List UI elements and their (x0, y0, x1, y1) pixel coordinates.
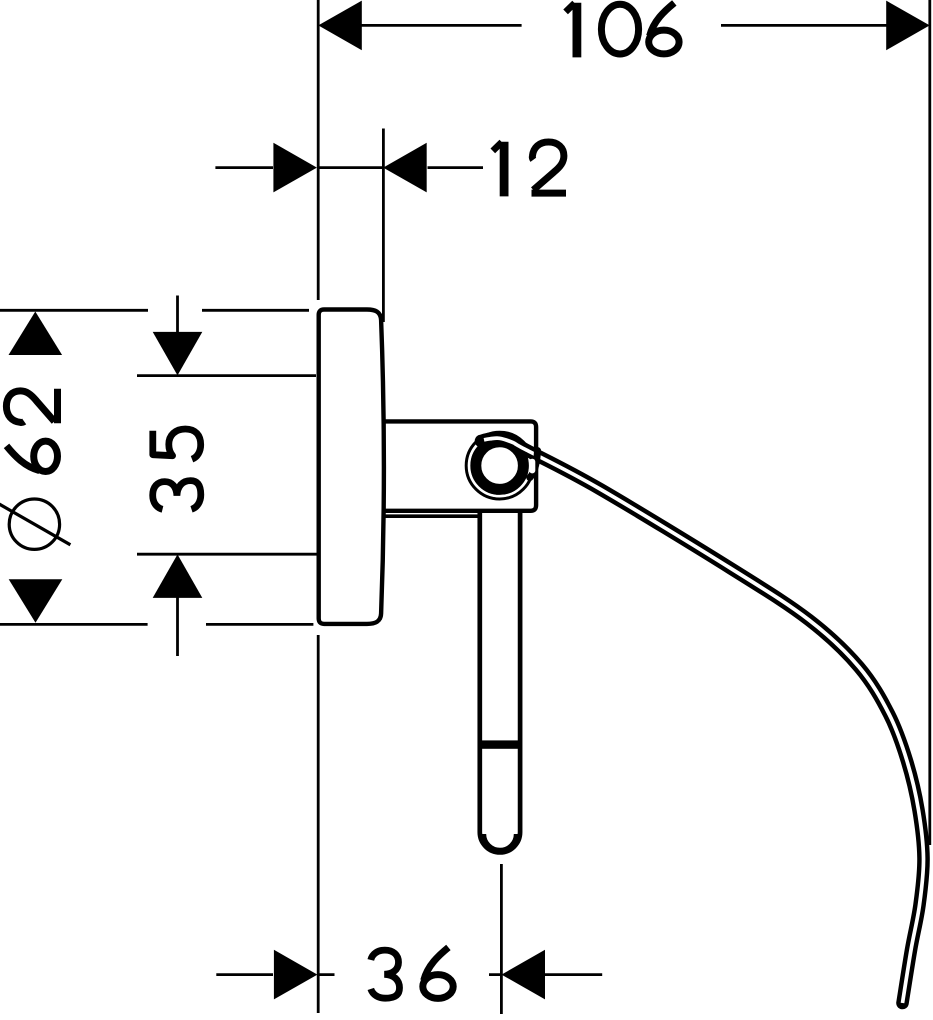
dimension line 12 (215, 166, 483, 169)
white notch between hub and wire end (529, 459, 535, 474)
arrowhead 35 bottom (153, 554, 203, 598)
diameter 62 extension line bottom (y=624) (0, 623, 313, 626)
arrowhead diameter 62 bottom (9, 579, 63, 623)
dimension line 106 (361, 24, 888, 27)
diameter 62 extension line top (y=310) (0, 309, 309, 312)
extension line left (x=318) bottom part (317, 635, 320, 1013)
dimension line 35 bottom (y=554) (137, 553, 317, 556)
extension line right (x=930) (928, 0, 931, 845)
white gap ring between hub and coil (469, 435, 530, 496)
arrowhead 106 left (318, 1, 362, 51)
arrowhead 12 right (383, 143, 427, 193)
dimension line 36 (216, 973, 602, 976)
pivot coil outer circle (466, 432, 533, 499)
label 35 (rotated) (153, 429, 201, 509)
arrowhead 12 left (273, 143, 317, 193)
arm underside step line (383, 514, 479, 518)
roll holder bar inner cap arc (484, 834, 516, 850)
arrowhead diameter 62 top (9, 312, 63, 356)
extension line left (x=318) top part (317, 0, 320, 300)
holder arm housing (382, 421, 537, 510)
roll holder bar (post) outer (480, 511, 520, 852)
roll holder bar joint band (478, 740, 522, 748)
wall plate outline with domed front (319, 310, 384, 624)
dimension line 35 top (y=375.5) (137, 374, 316, 377)
leader 35 top (176, 296, 179, 335)
spring wire white core (484, 438, 924, 1003)
spring wire (outer black) (481, 438, 924, 1003)
label diameter 62 (rotated) (0, 389, 70, 550)
arrowhead 106 right (886, 1, 930, 51)
arrowhead 36 right (502, 950, 546, 1000)
arrowhead 36 left (274, 950, 318, 1000)
extension line dome front (x=383) (382, 129, 385, 323)
label 12 (493, 142, 566, 197)
pivot hub ring (476, 442, 524, 490)
arrowhead 35 top (153, 332, 203, 376)
extension line bar center (x=501) (500, 864, 503, 1014)
label 106 (566, 3, 680, 58)
leader 35 bottom (176, 597, 179, 656)
wire end hook (530, 451, 538, 478)
label 36 (371, 947, 453, 998)
